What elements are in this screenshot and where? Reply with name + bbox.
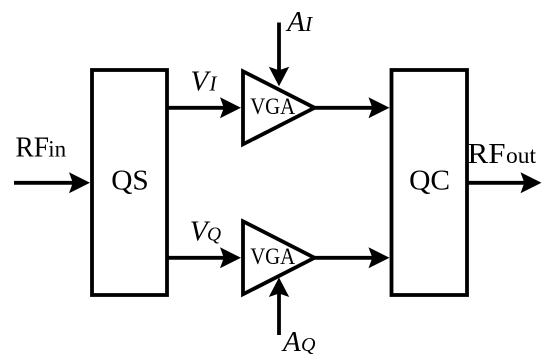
svg-text:QC: QC [409, 165, 450, 196]
svg-text:VGA: VGA [250, 94, 295, 120]
svg-text:QS: QS [111, 165, 149, 196]
svg-text:RFin: RFin [16, 133, 67, 164]
svg-text:RFout: RFout [468, 139, 537, 170]
svg-text:VGA: VGA [250, 244, 295, 270]
